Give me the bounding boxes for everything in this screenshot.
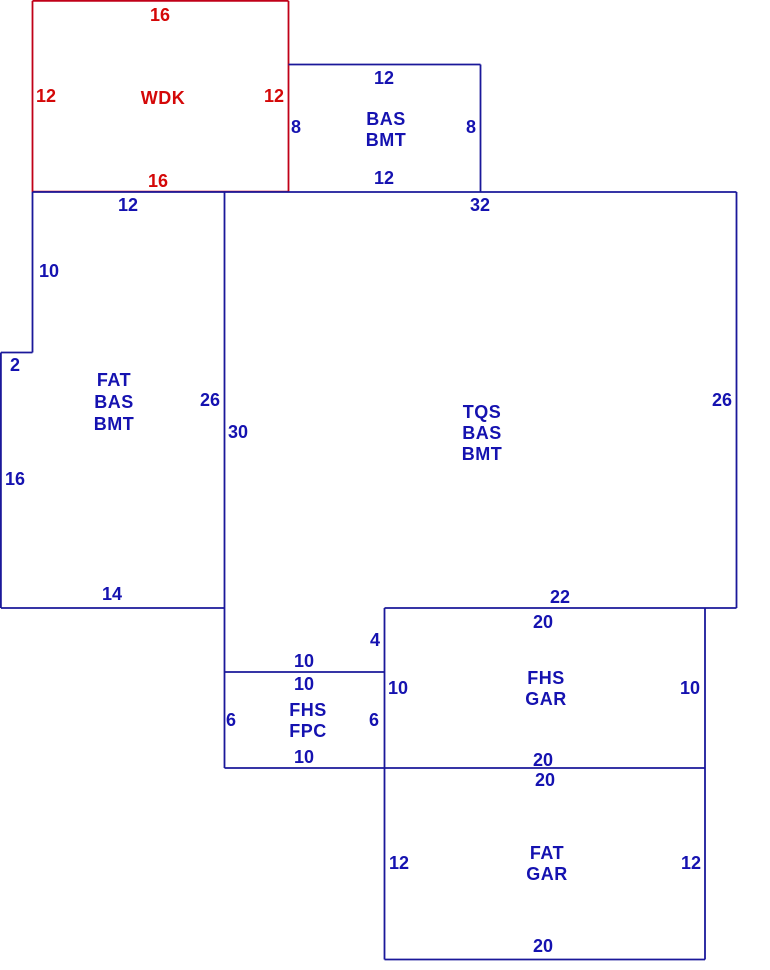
wire FAT GAR bottom edge (20) [385, 959, 706, 961]
svg-text:12: 12 [374, 168, 394, 188]
wire TQS right edge (26) [736, 192, 738, 608]
svg-text:16: 16 [150, 5, 170, 25]
wire FAT bottom edge (14) [1, 607, 225, 609]
svg-text:FAT: FAT [97, 370, 131, 390]
svg-text:BAS: BAS [94, 392, 134, 412]
wire y=768 line (FPC bottom + FHS GAR bottom) [225, 767, 706, 769]
svg-text:20: 20 [533, 750, 553, 770]
svg-text:BMT: BMT [366, 130, 407, 150]
svg-text:6: 6 [226, 710, 236, 730]
wire main top line y=192 [33, 191, 737, 193]
svg-text:FAT: FAT [530, 843, 564, 863]
svg-text:BAS: BAS [462, 423, 502, 443]
svg-text:26: 26 [712, 390, 732, 410]
svg-text:12: 12 [118, 195, 138, 215]
svg-text:GAR: GAR [526, 864, 568, 884]
svg-text:16: 16 [148, 171, 168, 191]
wire FAT step edge (2) [1, 352, 33, 354]
svg-text:BMT: BMT [462, 444, 503, 464]
wire right vertical x=705 (GAR right edges) [704, 608, 706, 960]
svg-text:20: 20 [535, 770, 555, 790]
wire TQS notch bottom y=672 (10) [225, 671, 385, 673]
svg-text:10: 10 [388, 678, 408, 698]
svg-text:GAR: GAR [525, 689, 567, 709]
svg-text:20: 20 [533, 612, 553, 632]
svg-text:BMT: BMT [94, 414, 135, 434]
svg-text:FHS: FHS [527, 668, 565, 688]
svg-text:BAS: BAS [366, 109, 406, 129]
svg-text:16: 16 [5, 469, 25, 489]
svg-text:12: 12 [264, 86, 284, 106]
svg-text:30: 30 [228, 422, 248, 442]
svg-text:12: 12 [681, 853, 701, 873]
wire FAT left lower edge (16) [0, 353, 2, 609]
svg-text:12: 12 [36, 86, 56, 106]
svg-text:32: 32 [470, 195, 490, 215]
svg-text:FPC: FPC [289, 721, 327, 741]
svg-text:22: 22 [550, 587, 570, 607]
svg-text:10: 10 [39, 261, 59, 281]
wire BAS BMT top edge [289, 64, 481, 66]
svg-text:14: 14 [102, 584, 122, 604]
wire vertical x=384.5 (4 + FPC right + GAR left) [384, 608, 386, 960]
svg-text:10: 10 [294, 674, 314, 694]
wire WDK bottom edge (red, under main line) [33, 191, 289, 193]
svg-text:12: 12 [389, 853, 409, 873]
svg-text:10: 10 [680, 678, 700, 698]
svg-text:4: 4 [370, 630, 380, 650]
svg-text:WDK: WDK [141, 88, 186, 108]
svg-text:12: 12 [374, 68, 394, 88]
svg-text:10: 10 [294, 747, 314, 767]
svg-text:2: 2 [10, 355, 20, 375]
svg-text:TQS: TQS [463, 402, 502, 422]
wire WDK left edge [32, 1, 34, 192]
wire FAT left upper edge (10) [32, 192, 34, 353]
wire TQS bottom y=608 (22) [385, 607, 737, 609]
wire WDK top edge [33, 0, 289, 2]
svg-text:6: 6 [369, 710, 379, 730]
svg-text:8: 8 [466, 117, 476, 137]
svg-text:20: 20 [533, 936, 553, 956]
svg-text:FHS: FHS [289, 700, 327, 720]
svg-text:8: 8 [291, 117, 301, 137]
wire BAS BMT right edge [480, 65, 482, 193]
svg-text:26: 26 [200, 390, 220, 410]
wire WDK right edge [288, 1, 290, 192]
wire center vertical x=224.5 (30 + FPC left) [224, 192, 226, 768]
svg-text:10: 10 [294, 651, 314, 671]
